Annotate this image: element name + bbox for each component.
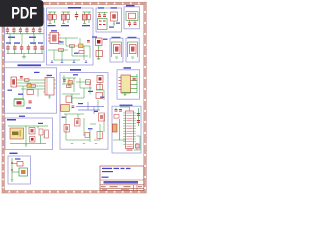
content: capacitor bank row C7-C12 [6, 42, 44, 58]
content: box P circuitry [126, 12, 138, 28]
section label Q2 driver [128, 37, 137, 38]
ic U4 LDO body [121, 75, 131, 93]
right border dashed band [144, 2, 146, 193]
section label uart [70, 69, 81, 71]
wire U4 right h1 [131, 76, 138, 78]
capacitor C2 [12, 27, 15, 34]
mid cluster wires [62, 78, 92, 104]
content: group R1 [96, 38, 108, 60]
transistor Q5 [29, 128, 35, 135]
junction node b [11, 169, 13, 171]
ground flag R1 [97, 59, 100, 60]
ground flag L2 [48, 95, 51, 98]
wire R3 top [128, 41, 138, 43]
transistor Q1 [114, 45, 121, 54]
capacitor C7 [6, 45, 9, 54]
value labels N [109, 23, 120, 28]
ground flag L4 [11, 180, 14, 181]
wire R2 vert right [121, 42, 123, 57]
resistor R8 [70, 45, 75, 48]
section box DECOUPLING-A (top-left, under badge) [5, 8, 44, 62]
content: box U circuitry [113, 107, 141, 151]
capacitor C11 [34, 45, 37, 54]
pin stubs U5 right green [134, 113, 136, 142]
ground flags M2 bottom [71, 143, 97, 145]
connector J3 [43, 130, 48, 138]
wire bus row2 [7, 53, 44, 55]
wire L2 vert a [22, 86, 24, 99]
wire U5 bottom-left horizontal [113, 139, 126, 141]
wire U4 bottom [122, 92, 137, 94]
ground flag T [124, 93, 127, 96]
sheet background [0, 0, 149, 198]
top-left cluster wires [62, 75, 76, 92]
resistor R10 [96, 51, 103, 57]
footer text row bottom [102, 188, 129, 191]
wire L2 h2 [17, 82, 44, 84]
wire U4 right h2 [131, 80, 138, 82]
footer text cells [101, 186, 142, 187]
content: box L3 circuitry [8, 116, 48, 147]
capacitor C5 [32, 27, 35, 34]
title block outline [100, 166, 144, 191]
title text line2 [102, 171, 113, 172]
resistor R15 [31, 85, 36, 88]
wire net mesh segments [48, 38, 90, 60]
wire L2 h1 [17, 79, 44, 81]
section box RELAY-OUT [5, 118, 53, 150]
value label group2 [61, 25, 69, 26]
resistor R14 [25, 79, 30, 82]
wire L2 h3 [17, 85, 44, 87]
usb connector J1 [11, 77, 17, 87]
capacitor C25 [20, 76, 23, 78]
capacitor C20 [134, 21, 137, 26]
wire L3 top [8, 125, 48, 127]
wire bus VBAT row1 [6, 33, 44, 35]
wire U4 right vertical [136, 74, 138, 93]
polarized capacitor C14 [61, 12, 65, 24]
red marks inside U9 [99, 21, 106, 26]
section box LDO-3V3 [117, 70, 140, 99]
resistor R20 [39, 129, 43, 135]
wire N top [98, 12, 108, 14]
svg-text:PDF: PDF [11, 4, 37, 23]
ic U6 usb-uart bridge [43, 78, 56, 96]
section box 5V-IN (top-right P) [124, 7, 140, 29]
capacitor C1 [6, 27, 9, 34]
net label 5V (above box P) [126, 5, 135, 7]
SHEET-FRAME [2, 2, 146, 193]
wire R3 vert right [137, 42, 139, 57]
connector J2 orange [113, 124, 118, 132]
resistor R4 [53, 12, 56, 23]
capacitor C12 [40, 45, 43, 54]
wire R3 vert left [127, 42, 129, 57]
wire P loop top [126, 11, 138, 13]
resistor R22 [67, 85, 72, 88]
inductor L1 yellow [79, 44, 84, 48]
title block divider row1 [100, 179, 144, 181]
ground flag N [113, 24, 116, 25]
capacitor C8 [13, 45, 16, 54]
wire R1 down [98, 46, 100, 59]
net label VCC (blue text above top-middle box) [68, 7, 81, 9]
wire P vert right [137, 12, 139, 21]
capacitor C30 [119, 109, 122, 112]
wire L3 bottom [10, 143, 46, 145]
section label relay [7, 119, 16, 121]
wire R2 top [112, 41, 122, 43]
ground symbol row2 [22, 54, 26, 59]
section box DRIVER-Q2 [126, 38, 139, 62]
ground flag L3 [25, 144, 27, 147]
led D1 [111, 12, 118, 24]
net label mid right [30, 42, 36, 43]
capacitor C19 [128, 21, 131, 28]
resistor R6 [87, 12, 90, 23]
diode D3 [97, 76, 103, 83]
capacitor C24 [29, 101, 32, 104]
wire L3 verts [26, 126, 41, 144]
lower wires M2 [64, 114, 104, 142]
section box DECOUPLING-B (top-middle) [47, 8, 94, 65]
net labels M2 [62, 74, 105, 129]
wire L2 vert b [37, 89, 39, 97]
title block divider row2 [100, 184, 144, 186]
ic U8 [99, 113, 105, 121]
wire U5 right vertical [138, 108, 140, 126]
pdf badge background [0, 0, 44, 27]
ferrite bead FB1 yellow [27, 84, 31, 88]
capacitor C27 [72, 106, 75, 108]
capacitor C4 [25, 27, 28, 34]
sheet label text [102, 177, 109, 178]
ground flags bottom of box M [51, 60, 88, 63]
title text line1 [102, 168, 131, 169]
section label sensor [10, 153, 18, 154]
capacitor C17 [98, 13, 101, 17]
pin number marks below U5 [127, 150, 133, 151]
sheet inner border line [4, 5, 143, 191]
resistor R21 [12, 162, 23, 167]
title block vertical divider a [133, 185, 135, 191]
pin stubs U4 left [119, 78, 122, 90]
transistor Q4 [64, 125, 70, 133]
section label USB-UART [18, 64, 42, 66]
ground flag R2 [115, 57, 118, 58]
section label LDO [124, 67, 132, 69]
content: box M2 circuitry [61, 74, 105, 143]
bottom border dashed band [2, 190, 146, 193]
wire top group1 [48, 11, 56, 13]
resistor R18 [97, 132, 103, 139]
pin stubs U5 left green [123, 113, 125, 144]
resistor R19 [85, 133, 90, 138]
value label 100nF row1 right [29, 37, 36, 38]
content: boxes R2 R3 [112, 42, 138, 58]
section box PWR-LED (top-right N) [96, 8, 122, 32]
title block vertical divider b [136, 185, 138, 191]
diode D2 [96, 38, 103, 46]
resistor R24 [96, 93, 103, 99]
net labels L3 [19, 116, 43, 124]
resistor R12 [114, 115, 119, 119]
wire top group2 [62, 11, 71, 13]
esd array U7 [27, 90, 34, 95]
crystal Y3 small yellow [68, 81, 73, 84]
wire U4 right h3 [131, 84, 138, 86]
capacitor C6 [38, 27, 41, 34]
net flag labels mesh [59, 36, 97, 53]
net labels L2 [8, 72, 40, 109]
wire P loop bottom [126, 20, 138, 22]
content: box T circuitry [119, 74, 138, 96]
resistor R17 [66, 96, 72, 103]
ref label U3 [51, 30, 57, 31]
wire mesh bottom right of U5 [134, 136, 140, 150]
net label L4 [15, 158, 21, 159]
crystal Y2 yellow [61, 105, 70, 112]
capacitor C23 right [137, 120, 140, 123]
capacitor C10 [27, 45, 30, 54]
ref label D2 [103, 39, 108, 40]
wire ESP top entry [120, 107, 130, 111]
capacitor C26 [63, 79, 66, 81]
transistor Q2 [130, 45, 137, 54]
resistor R5 [66, 12, 69, 23]
wire U4 right h4 [131, 88, 138, 90]
capacitor C9 [20, 45, 23, 54]
value label group1 [48, 25, 56, 26]
bus wire purple h1 [76, 106, 104, 108]
bus wire purple h2 [78, 109, 100, 111]
capacitor C29 top left [115, 108, 118, 112]
crystal Y1 group lower-left [14, 99, 24, 107]
net label VCC33 mid [14, 42, 20, 43]
pin stripes U5 inner [126, 113, 132, 147]
BADGE [0, 0, 44, 27]
polarized capacitor C13 [48, 12, 52, 24]
right column components wires [96, 82, 104, 110]
capacitor C15 [75, 12, 78, 21]
capacitor C21 [133, 78, 136, 81]
wire L2 h4 [21, 88, 43, 90]
wire L4 vertical rail [11, 158, 13, 180]
junction node a [11, 162, 13, 164]
content: box N circuitry [98, 7, 121, 29]
section box USB-UART [5, 68, 57, 113]
bus wire purple verticals [88, 102, 94, 114]
wire R2 vert left [111, 42, 113, 57]
section label ESP module [120, 105, 133, 107]
wire U5 left vertical [119, 119, 121, 140]
transistor Q3 [75, 119, 81, 127]
ic U3 regulator [48, 33, 61, 44]
wire top group3 [83, 11, 92, 13]
ref label U6 [47, 75, 53, 76]
section box UART-MCU [60, 73, 108, 150]
diode D4 [30, 137, 36, 143]
capacitor C28 [87, 40, 90, 42]
hyperlink bar easyeda url [104, 181, 139, 184]
section box DRIVER-Q1 [110, 38, 123, 62]
ic U9 green outline [98, 19, 108, 30]
content: capacitor bank row C1-C6 [6, 27, 44, 45]
section box ESP-MODULE [112, 106, 141, 153]
resistor R9 [79, 51, 84, 54]
resistor R7 [59, 49, 64, 52]
resistor R23 [97, 85, 103, 90]
resistor R16 [86, 80, 91, 85]
relay K1 yellow body [10, 128, 24, 139]
capacitor C3 [19, 27, 22, 34]
left border dashed band [2, 2, 4, 193]
title block divider row3 [100, 188, 144, 190]
content: box L2 circuitry [8, 72, 56, 109]
sheet outer border line [2, 2, 146, 193]
content: box M circuitry [48, 12, 98, 63]
section label Q1 driver [112, 37, 121, 38]
capacitor C18 [103, 13, 106, 17]
content: box L4 circuitry [11, 158, 28, 181]
ic U5 module body [126, 111, 134, 149]
ref labels on N top border [98, 7, 117, 8]
value label 100nF row1 left [8, 37, 15, 38]
TITLEBLOCK [100, 166, 144, 191]
capacitor C22 right [137, 113, 140, 116]
resistor R13 bottom right [136, 144, 140, 148]
polarized capacitor C16 [82, 12, 86, 24]
fuse F1 [129, 13, 136, 19]
SECTIONS [5, 5, 141, 184]
ground flag R3 [131, 57, 134, 58]
wire P vert left [125, 12, 127, 21]
top border dashed band [2, 2, 146, 5]
photo sensor PH1 [12, 168, 28, 176]
section box SENSOR-IN [8, 156, 31, 184]
value label group3 [82, 25, 90, 26]
